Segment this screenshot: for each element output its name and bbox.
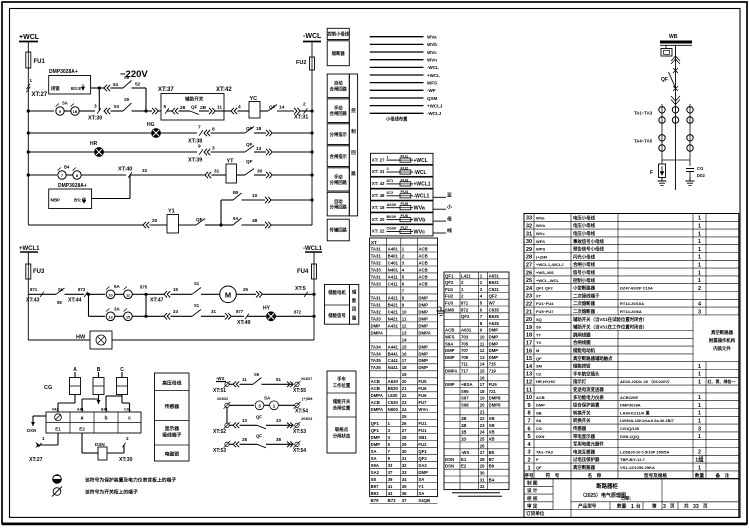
svg-text:手车: 手车 xyxy=(337,376,346,383)
svg-text:c: c xyxy=(128,416,131,422)
svg-text:符 号: 符 号 xyxy=(546,472,560,479)
svg-text:SB1: SB1 xyxy=(418,435,427,440)
svg-text:WFS: WFS xyxy=(427,80,437,85)
svg-text:872: 872 xyxy=(294,310,302,315)
svg-text:TA31: TA31 xyxy=(371,295,382,300)
svg-text:10: 10 xyxy=(526,395,532,401)
svg-text:辅助开关（当VS1在工作位置时闭合）: 辅助开关（当VS1在工作位置时闭合） xyxy=(573,324,647,331)
wire +WCL1 left rail xyxy=(27,252,29,340)
svg-text:二次接线端子: 二次接线端子 xyxy=(573,292,600,299)
svg-text:XT:53: XT:53 xyxy=(213,448,226,454)
svg-text:控: 控 xyxy=(351,107,356,114)
svg-text:电流互感器: 电流互感器 xyxy=(573,448,596,455)
svg-text:N441: N441 xyxy=(388,365,399,370)
svg-text:QF: QF xyxy=(661,77,668,83)
wire to YC xyxy=(224,110,231,112)
svg-text:XT:43: XT:43 xyxy=(26,298,40,304)
svg-text:TA4~TA5: TA4~TA5 xyxy=(634,139,653,144)
svg-text:C401: C401 xyxy=(388,260,399,265)
svg-text:XT: 18: XT: 18 xyxy=(372,205,385,210)
svg-text:1: 1 xyxy=(698,395,701,401)
svg-text:转换开关: 转换开关 xyxy=(573,409,591,416)
svg-text:分闸回路: 分闸回路 xyxy=(330,179,348,186)
svg-text:XT: 43: XT: 43 xyxy=(372,181,385,186)
svg-text:DSN: DSN xyxy=(445,464,454,469)
svg-text:DMP3028A+: DMP3028A+ xyxy=(49,69,78,75)
svg-text:B630: B630 xyxy=(387,214,397,219)
svg-text:DMP: DMP xyxy=(489,348,499,353)
svg-text:8: 8 xyxy=(212,127,215,133)
svg-text:Y1: Y1 xyxy=(168,209,175,215)
svg-text:1: 1 xyxy=(698,411,701,417)
svg-text:B441: B441 xyxy=(388,351,399,356)
svg-text:RT14-20/6A: RT14-20/6A xyxy=(620,309,642,314)
svg-text:XB: XB xyxy=(489,437,495,442)
svg-text:23: 23 xyxy=(402,400,407,405)
svg-text:XT: 22: XT: 22 xyxy=(372,229,385,234)
svg-text:TA31: TA31 xyxy=(371,253,382,258)
svg-text:二次熔断器: 二次熔断器 xyxy=(573,308,596,315)
BOM parts table xyxy=(524,214,739,479)
svg-text:33: 33 xyxy=(276,418,282,423)
svg-text:23: 23 xyxy=(526,294,532,300)
svg-text:BS:8: BS:8 xyxy=(71,86,81,91)
svg-text:32: 32 xyxy=(526,224,532,230)
svg-text:真空断路器辅助触点: 真空断路器辅助触点 xyxy=(573,355,613,362)
svg-text:16: 16 xyxy=(480,375,485,380)
ground under F xyxy=(661,177,663,181)
svg-text:DMP: DMP xyxy=(418,295,428,300)
svg-text:29: 29 xyxy=(402,442,407,447)
svg-text:分闸状态: 分闸状态 xyxy=(333,433,351,440)
svg-text:27: 27 xyxy=(480,450,485,455)
sensor section label boxes xyxy=(155,373,190,461)
svg-text:31: 31 xyxy=(402,456,407,461)
svg-text:10: 10 xyxy=(480,335,485,340)
svg-text:SA2: SA2 xyxy=(371,470,380,475)
svg-text:B4: B4 xyxy=(64,165,70,170)
svg-text:ACB: ACB xyxy=(418,281,427,286)
svg-text:XT:47: XT:47 xyxy=(150,298,164,304)
svg-text:TA35: TA35 xyxy=(371,365,382,370)
svg-text:12: 12 xyxy=(526,380,532,386)
svg-text:VS1-12/1250-25KA: VS1-12/1250-25KA xyxy=(620,465,655,470)
svg-text:-WCL1: -WCL1 xyxy=(414,194,430,200)
svg-text:21: 21 xyxy=(402,386,407,391)
svg-text:a: a xyxy=(81,416,84,422)
svg-text:分闸回路: 分闸回路 xyxy=(330,204,348,211)
svg-text:A411: A411 xyxy=(388,274,399,279)
svg-text:871: 871 xyxy=(30,287,38,292)
svg-text:QF: QF xyxy=(536,465,542,470)
svg-text:-WCL: -WCL xyxy=(427,65,439,70)
svg-text:ACB: ACB xyxy=(445,328,454,333)
svg-text:32: 32 xyxy=(480,484,485,489)
svg-text:TA33: TA33 xyxy=(371,267,382,272)
svg-text:XT:55: XT:55 xyxy=(293,388,306,394)
svg-text:33: 33 xyxy=(526,216,532,222)
svg-text:FU2: FU2 xyxy=(296,60,306,66)
svg-text:熔断器: 熔断器 xyxy=(332,50,346,57)
heater HW xyxy=(28,339,90,341)
CT column x=675.5 xyxy=(672,107,678,113)
svg-text:1B: 1B xyxy=(461,416,467,421)
strip row XT: 27 FU1 +WCL xyxy=(371,153,434,164)
svg-text:721: 721 xyxy=(489,389,497,394)
svg-text:N421: N421 xyxy=(388,316,399,321)
svg-text:WVn: WVn xyxy=(427,57,437,62)
svg-text:TA31: TA31 xyxy=(371,274,382,279)
svg-text:SA: SA xyxy=(418,477,424,482)
svg-text:联络点: 联络点 xyxy=(335,426,349,433)
svg-text:QF: QF xyxy=(246,142,253,147)
svg-text:变送电流变送器: 变送电流变送器 xyxy=(573,386,604,393)
svg-text:3: 3 xyxy=(698,426,701,432)
svg-text:52: 52 xyxy=(135,82,141,88)
wire DMP1 output to node xyxy=(91,87,100,89)
svg-text:+BSA: +BSA xyxy=(461,382,473,387)
svg-text:DMPA: DMPA xyxy=(445,369,457,374)
svg-text:LZZBJ9-10 0.5/10P 250/5A: LZZBJ9-10 0.5/10P 250/5A xyxy=(620,449,669,454)
svg-text:30: 30 xyxy=(480,471,485,476)
svg-text:XT:37: XT:37 xyxy=(158,87,174,93)
svg-text:页: 页 xyxy=(670,502,675,509)
svg-text:2: 2 xyxy=(698,286,701,292)
svg-text:TA32: TA32 xyxy=(371,309,382,314)
svg-text:B631: B631 xyxy=(489,280,500,285)
svg-text:18: 18 xyxy=(256,126,262,132)
svg-text:DMP: DMP xyxy=(489,335,499,340)
svg-text:37: 37 xyxy=(388,470,393,475)
svg-text:5: 5 xyxy=(164,104,167,110)
svg-text:17: 17 xyxy=(526,341,532,347)
svg-text:4: 4 xyxy=(698,302,701,308)
svg-text:储能开关: 储能开关 xyxy=(333,398,351,405)
svg-text:TA33: TA33 xyxy=(371,281,382,286)
svg-text:15: 15 xyxy=(173,287,179,292)
svg-text:SA: SA xyxy=(418,491,424,496)
svg-text:TA31: TA31 xyxy=(371,246,382,251)
svg-text:A630: A630 xyxy=(387,202,397,207)
svg-text:DMP: DMP xyxy=(418,316,428,321)
svg-text:XT: XT xyxy=(536,293,542,298)
svg-text:QF1: QF1 xyxy=(418,449,427,454)
svg-text:+WCL1: +WCL1 xyxy=(19,246,40,252)
svg-text:XT:5: XT:5 xyxy=(295,286,306,292)
svg-text:4: 4 xyxy=(238,104,241,110)
svg-text:34: 34 xyxy=(402,477,407,482)
svg-text:合闸指示: 合闸指示 xyxy=(330,153,348,160)
svg-text:33: 33 xyxy=(142,168,148,173)
isolating plug upper xyxy=(671,56,680,64)
svg-text:C441: C441 xyxy=(388,358,399,363)
svg-text:S1: S1 xyxy=(194,281,200,286)
svg-text:DMP8: DMP8 xyxy=(489,403,502,408)
svg-text:HR,HY,HG: HR,HY,HG xyxy=(536,379,555,384)
fuse FU2 xyxy=(310,57,315,70)
svg-text:22: 22 xyxy=(526,302,532,308)
svg-text:HY: HY xyxy=(263,306,271,312)
svg-text:DXN: DXN xyxy=(536,434,545,439)
svg-text:DMP: DMP xyxy=(418,365,428,370)
svg-text:A431: A431 xyxy=(388,323,399,328)
svg-text:多功能电力仪表: 多功能电力仪表 xyxy=(573,394,604,401)
svg-text:B4: B4 xyxy=(489,477,495,482)
svg-text:DMP3028A+: DMP3028A+ xyxy=(58,183,87,189)
svg-text:XT:54: XT:54 xyxy=(293,448,306,454)
wire rung A xyxy=(27,109,30,112)
svg-text:YT: YT xyxy=(536,332,542,337)
svg-text:FU2: FU2 xyxy=(445,294,454,299)
svg-text:29: 29 xyxy=(526,247,532,253)
svg-text:11: 11 xyxy=(242,377,247,382)
svg-text:XT: 20: XT: 20 xyxy=(372,217,385,222)
svg-text:203D2: 203D2 xyxy=(217,397,228,401)
wire CT legs to bottom branch xyxy=(661,126,663,132)
fuse FU3 xyxy=(26,264,31,279)
svg-text:B93: B93 xyxy=(371,491,379,496)
svg-text:24: 24 xyxy=(402,407,407,412)
svg-text:B635: B635 xyxy=(489,314,500,319)
svg-text:+WCL: +WCL xyxy=(19,34,40,41)
svg-text:QSM: QSM xyxy=(427,96,438,101)
motor M xyxy=(220,286,237,303)
svg-text:B97: B97 xyxy=(371,484,379,489)
svg-text:WPS: WPS xyxy=(536,247,545,252)
display terminal table xyxy=(46,412,141,433)
svg-text:28: 28 xyxy=(526,255,532,261)
svg-text:XT:44: XT:44 xyxy=(68,298,82,304)
svg-text:台: 台 xyxy=(636,502,641,509)
svg-text:路: 路 xyxy=(351,170,356,177)
wire bypass branch with switch SB 52 xyxy=(99,87,104,89)
svg-text:14: 14 xyxy=(480,362,485,367)
svg-text:-WCL: -WCL xyxy=(414,170,427,176)
svg-text:跳闸线圈: 跳闸线圈 xyxy=(573,331,591,338)
svg-text:HR: HR xyxy=(90,141,98,147)
svg-text:数量: 数量 xyxy=(695,472,705,479)
svg-text:型号及规格: 型号及规格 xyxy=(644,472,667,479)
svg-text:B73: B73 xyxy=(388,498,396,503)
svg-text:S9A: S9A xyxy=(445,341,453,346)
svg-text:+WCLJ,-WCLJ: +WCLJ,-WCLJ xyxy=(536,262,563,267)
svg-text:1: 1 xyxy=(698,278,701,284)
CT column x=690 xyxy=(689,104,691,126)
svg-text:合闸回路: 合闸回路 xyxy=(330,85,348,92)
svg-text:2: 2 xyxy=(303,102,306,108)
svg-text:DMP3028A: DMP3028A xyxy=(620,403,641,408)
svg-text:XB: XB xyxy=(489,416,495,421)
svg-text:显示器: 显示器 xyxy=(165,425,180,432)
svg-text:B79: B79 xyxy=(371,498,379,503)
svg-text:25: 25 xyxy=(526,278,532,284)
svg-text:传输回路: 传输回路 xyxy=(329,227,348,234)
svg-text:FU5~FU7: FU5~FU7 xyxy=(536,309,554,314)
wire to DXN display xyxy=(33,415,46,417)
svg-text:18: 18 xyxy=(402,365,407,370)
strip row XT: 18 FU5 WVa xyxy=(371,201,434,212)
svg-text:回: 回 xyxy=(352,306,357,313)
svg-text:875: 875 xyxy=(140,285,148,290)
svg-text:18: 18 xyxy=(480,389,485,394)
svg-text:E2: E2 xyxy=(461,464,467,469)
svg-text:25: 25 xyxy=(480,437,485,442)
svg-text:38: 38 xyxy=(276,437,282,442)
svg-text:-WS: -WS xyxy=(461,450,469,455)
svg-text:C630: C630 xyxy=(387,226,397,231)
svg-text:该符号为保护装置及电力仪表背板上的端子: 该符号为保护装置及电力仪表背板上的端子 xyxy=(85,477,176,484)
svg-text:51: 51 xyxy=(276,377,282,382)
svg-text:33: 33 xyxy=(693,504,699,510)
svg-text:合闸位置: 合闸位置 xyxy=(333,405,351,412)
svg-text:XB: XB xyxy=(489,430,495,435)
svg-text:711: 711 xyxy=(461,362,469,367)
svg-text:A401: A401 xyxy=(388,246,399,251)
svg-text:日期：: 日期： xyxy=(621,495,634,502)
svg-text:16: 16 xyxy=(526,348,532,354)
svg-text:9A: 9A xyxy=(233,216,238,221)
isolating plug lower xyxy=(671,96,680,105)
wire rung P4 xyxy=(225,442,229,446)
svg-text:FU5: FU5 xyxy=(489,382,498,387)
svg-text:辅助开关（当VS1在试验位置时闭合）: 辅助开关（当VS1在试验位置时闭合） xyxy=(573,316,647,323)
svg-text:C631: C631 xyxy=(489,287,500,292)
svg-text:S4QB: S4QB xyxy=(418,498,430,503)
svg-text:A635: A635 xyxy=(489,321,500,326)
svg-text:带电显示器: 带电显示器 xyxy=(573,433,596,440)
svg-text:SA: SA xyxy=(264,396,271,401)
svg-text:QF2: QF2 xyxy=(461,314,470,319)
svg-text:军用电缆元器件: 军用电缆元器件 xyxy=(573,441,604,448)
svg-text:QF2: QF2 xyxy=(489,294,498,299)
svg-text:合闸小母线: 合闸小母线 xyxy=(573,261,596,268)
svg-text:回: 回 xyxy=(351,149,356,156)
svg-text:红、黄、绿各一: 红、黄、绿各一 xyxy=(708,378,736,384)
svg-text:转换开关: 转换开关 xyxy=(573,417,591,424)
svg-text:30: 30 xyxy=(257,169,263,175)
svg-text:手车航空插头: 手车航空插头 xyxy=(573,370,600,377)
svg-text:BAL: BAL xyxy=(101,408,109,412)
svg-text:43: 43 xyxy=(388,491,393,496)
svg-text:WVb: WVb xyxy=(427,42,437,47)
svg-text:b: b xyxy=(104,416,107,422)
svg-text:13: 13 xyxy=(242,418,248,423)
svg-text:6: 6 xyxy=(527,426,530,432)
svg-text:WVa: WVa xyxy=(536,215,545,220)
svg-text:过电压保护器: 过电压保护器 xyxy=(573,456,600,463)
svg-text:XT:30: XT:30 xyxy=(88,116,102,122)
svg-text:(+)SM: (+)SM xyxy=(536,254,548,259)
svg-text:1: 1 xyxy=(273,404,276,409)
svg-text:3: 3 xyxy=(94,104,97,110)
svg-text:3: 3 xyxy=(698,309,701,315)
svg-text:S9: S9 xyxy=(124,97,130,102)
svg-text:13: 13 xyxy=(480,355,485,360)
svg-text:AAL: AAL xyxy=(77,408,85,412)
svg-text:制: 制 xyxy=(351,128,356,135)
svg-text:FU1: FU1 xyxy=(418,421,427,426)
svg-text:1: 1 xyxy=(698,231,701,237)
svg-text:3: 3 xyxy=(212,146,215,152)
svg-text:储能电机: 储能电机 xyxy=(328,289,346,296)
svg-text:703: 703 xyxy=(461,335,469,340)
svg-text:871: 871 xyxy=(387,178,394,183)
svg-text:工作位置: 工作位置 xyxy=(333,382,351,389)
svg-text:WVa: WVa xyxy=(427,35,437,40)
svg-text:1组: 1组 xyxy=(695,456,704,464)
svg-text:FU3: FU3 xyxy=(33,269,45,275)
svg-text:1: 1 xyxy=(698,270,701,276)
svg-text:N401: N401 xyxy=(388,267,399,272)
svg-text:审 定: 审 定 xyxy=(527,503,538,510)
svg-text:A631: A631 xyxy=(489,273,500,278)
svg-text:闪光小母线: 闪光小母线 xyxy=(573,253,596,260)
svg-text:1: 1 xyxy=(698,224,701,230)
svg-text:1B: 1B xyxy=(461,430,467,435)
svg-text:1: 1 xyxy=(698,239,701,245)
svg-text:DMP: DMP xyxy=(371,442,381,447)
svg-text:B9: B9 xyxy=(233,190,239,195)
svg-text:19: 19 xyxy=(402,372,407,377)
svg-text:A630: A630 xyxy=(388,379,399,384)
svg-text:203D3: 203D3 xyxy=(301,417,312,421)
svg-text:XT: 48: XT: 48 xyxy=(372,193,385,198)
svg-text:小: 小 xyxy=(446,203,452,210)
svg-text:11: 11 xyxy=(217,105,222,111)
svg-text:3A: 3A xyxy=(114,307,121,312)
svg-text:FU2: FU2 xyxy=(418,442,427,447)
svg-text:WVa: WVa xyxy=(414,206,426,212)
svg-text:ACB: ACB xyxy=(371,386,380,391)
svg-text:15: 15 xyxy=(402,344,407,349)
svg-text:SQ: SQ xyxy=(536,317,542,322)
svg-text:24: 24 xyxy=(480,430,485,435)
svg-text:29: 29 xyxy=(480,464,485,469)
svg-text:16: 16 xyxy=(402,351,407,356)
svg-text:母: 母 xyxy=(447,215,452,222)
svg-text:3: 3 xyxy=(527,450,530,456)
svg-text:DMP: DMP xyxy=(489,355,499,360)
svg-text:订货单位: 订货单位 xyxy=(526,510,545,517)
svg-text:E2: E2 xyxy=(79,427,85,432)
svg-text:DMP: DMP xyxy=(418,302,428,307)
svg-text:20: 20 xyxy=(402,379,407,384)
electromagnetic lock DSN xyxy=(81,433,83,453)
svg-text:709: 709 xyxy=(461,355,469,360)
svg-text:14: 14 xyxy=(279,105,285,111)
svg-text:DMP: DMP xyxy=(371,435,381,440)
svg-text:Y1: Y1 xyxy=(418,484,424,489)
svg-text:ACB: ACB xyxy=(418,253,427,258)
svg-text:CG: CG xyxy=(44,385,52,391)
svg-text:E1: E1 xyxy=(55,427,61,432)
svg-text:719: 719 xyxy=(489,369,497,374)
svg-text:C411: C411 xyxy=(388,281,399,286)
svg-text:41: 41 xyxy=(388,484,393,489)
svg-text:数量: 数量 xyxy=(617,502,627,509)
strip row XT: 48 FU4 -WCL1 xyxy=(371,189,434,200)
svg-text:17: 17 xyxy=(480,382,485,387)
svg-text:辅助开关: 辅助开关 xyxy=(185,96,204,103)
svg-text:CAL: CAL xyxy=(124,408,132,412)
svg-text:TA32: TA32 xyxy=(371,260,382,265)
svg-text:FU5: FU5 xyxy=(418,379,427,384)
svg-text:FU7: FU7 xyxy=(418,400,427,405)
svg-text:2: 2 xyxy=(126,436,129,441)
svg-text:18: 18 xyxy=(526,333,532,339)
svg-text:11: 11 xyxy=(526,387,532,393)
svg-text:XT:39: XT:39 xyxy=(188,158,202,164)
